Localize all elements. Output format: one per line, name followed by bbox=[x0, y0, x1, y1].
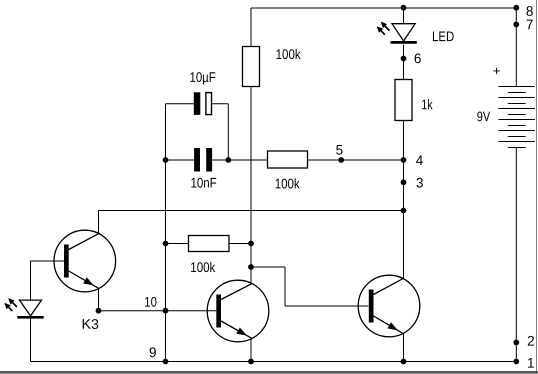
svg-text:7: 7 bbox=[526, 16, 534, 32]
svg-text:100k: 100k bbox=[190, 259, 216, 275]
svg-text:10nF: 10nF bbox=[190, 175, 216, 191]
svg-text:LED: LED bbox=[432, 28, 454, 44]
svg-text:10: 10 bbox=[144, 294, 157, 310]
svg-text:2: 2 bbox=[527, 333, 535, 349]
svg-text:100k: 100k bbox=[276, 46, 302, 62]
svg-text:3: 3 bbox=[416, 175, 424, 191]
svg-text:+: + bbox=[493, 63, 501, 78]
svg-text:10µF: 10µF bbox=[190, 69, 216, 85]
svg-text:100k: 100k bbox=[275, 175, 301, 191]
svg-text:K3: K3 bbox=[81, 316, 99, 332]
svg-text:9: 9 bbox=[149, 344, 157, 360]
svg-text:6: 6 bbox=[414, 50, 422, 66]
svg-text:5: 5 bbox=[336, 142, 344, 158]
svg-text:9V: 9V bbox=[477, 108, 491, 124]
svg-text:1: 1 bbox=[527, 355, 535, 371]
svg-text:1k: 1k bbox=[421, 96, 433, 112]
svg-text:4: 4 bbox=[416, 152, 424, 168]
